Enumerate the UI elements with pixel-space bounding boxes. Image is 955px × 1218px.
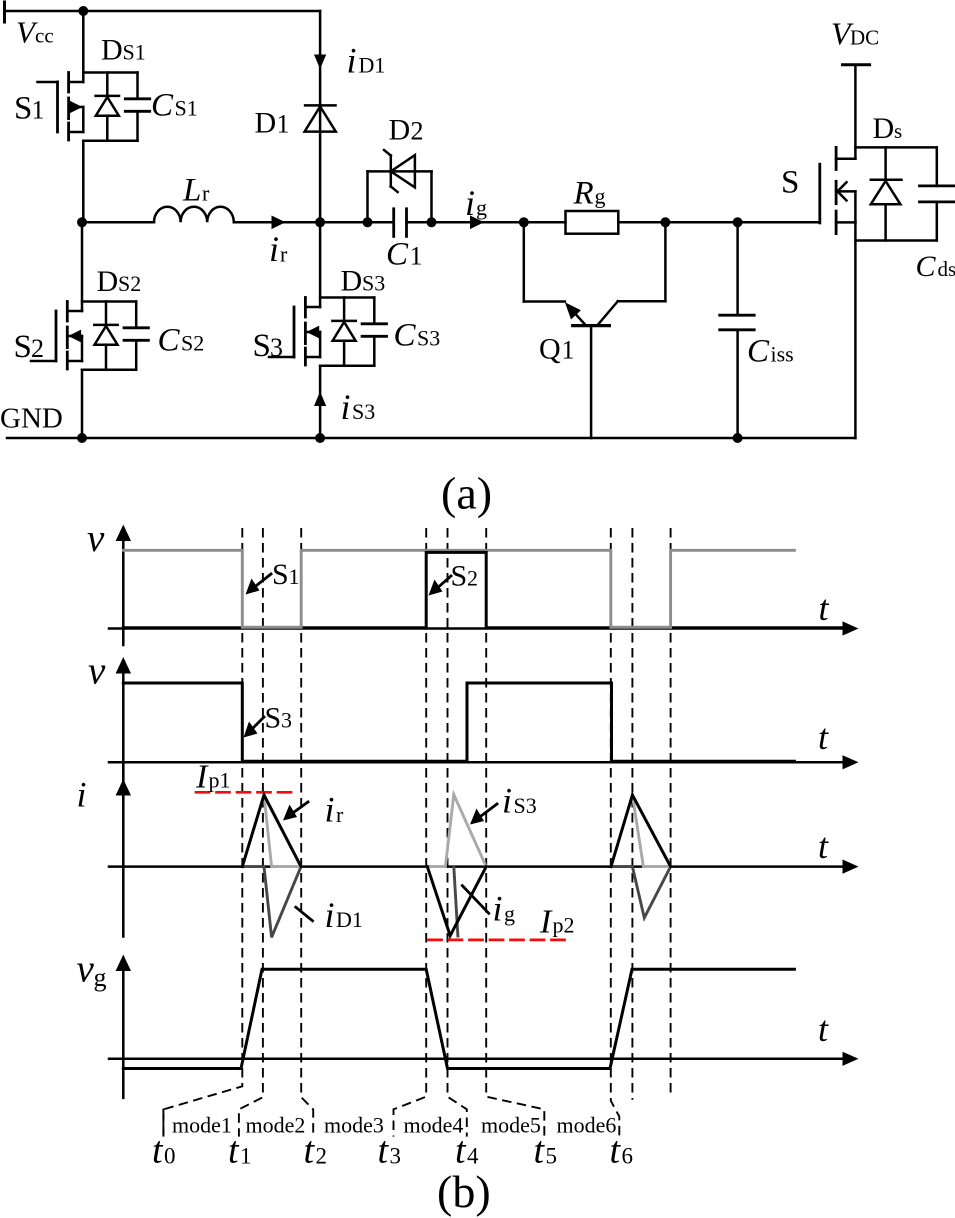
svg-text:D: D: [255, 107, 277, 140]
svg-text:6: 6: [622, 1144, 634, 1169]
diode DS2: [82, 302, 136, 370]
svg-text:t: t: [304, 1130, 316, 1172]
svg-text:5: 5: [546, 1144, 558, 1169]
svg-text:S1: S1: [123, 40, 146, 65]
D2 label: [389, 113, 424, 146]
svg-text:r: r: [336, 802, 344, 827]
svg-text:C: C: [394, 318, 417, 354]
svg-text:2: 2: [31, 334, 44, 363]
svg-text:C: C: [151, 88, 174, 124]
svg-text:3: 3: [270, 333, 283, 362]
Rg label: [573, 176, 606, 212]
CS1 label: [151, 88, 198, 124]
svg-text:I: I: [195, 759, 209, 796]
node mid-left: [77, 217, 87, 227]
node D2 left: [363, 217, 373, 227]
svg-text:S2: S2: [181, 331, 204, 356]
node GND left: [77, 433, 87, 443]
trace vg black: [123, 969, 794, 1068]
svg-text:D: D: [97, 265, 119, 298]
iS3 arrow: [314, 392, 326, 407]
svg-text:v: v: [77, 948, 95, 991]
wire S3 drain: [319, 222, 322, 307]
wire dashed aux2-line: [670, 528, 672, 1098]
wire S source down: [854, 222, 857, 438]
Ciss label: [747, 334, 794, 370]
svg-text:1: 1: [277, 110, 290, 139]
svg-text:t: t: [534, 1130, 546, 1172]
trace iS3 light gray group2: [427, 795, 486, 867]
svg-text:v: v: [88, 650, 106, 693]
capacitor C1: [394, 209, 407, 237]
label t3: [378, 1130, 402, 1172]
trace ir black group1: [242, 795, 301, 867]
svg-text:C: C: [386, 237, 409, 273]
svg-text:1: 1: [562, 336, 575, 365]
transistor S2: [31, 222, 82, 369]
svg-text:DC: DC: [850, 25, 879, 49]
label t6: [610, 1130, 634, 1172]
trace iS3 light gray group1: [264, 795, 301, 867]
capacitor Cds: [920, 147, 955, 240]
svg-text:D: D: [101, 34, 123, 67]
wire VDC to S drain: [854, 65, 857, 159]
wire Rg right: [618, 221, 737, 224]
svg-text:S3: S3: [417, 326, 440, 351]
DS1 label: [101, 34, 146, 67]
wire mid rail to center node: [234, 221, 320, 224]
capacitor CS2: [124, 302, 148, 370]
svg-text:mode1: mode1: [172, 1113, 232, 1138]
svg-text:s: s: [894, 119, 902, 143]
svg-text:(a): (a): [441, 468, 492, 519]
wire mid rail node to D2 loop: [320, 221, 394, 224]
wire S1 source to mid node: [82, 141, 85, 223]
svg-text:g: g: [94, 963, 107, 992]
node Rg right: [660, 217, 670, 227]
capacitor Ciss: [720, 222, 755, 438]
wire to Rg: [524, 221, 566, 224]
wire to S gate: [738, 221, 820, 224]
node top: [78, 6, 88, 16]
svg-text:r: r: [202, 181, 210, 206]
D1 label: [255, 107, 290, 140]
svg-text:t: t: [152, 1130, 164, 1172]
label S1 with arrow: [246, 558, 300, 595]
svg-text:S: S: [14, 91, 32, 127]
transistor S1: [38, 73, 84, 141]
axis y panel1: [87, 517, 131, 645]
wire dashed t1-line: [163, 528, 242, 1137]
node center: [315, 217, 325, 227]
svg-text:i: i: [325, 790, 335, 830]
wire S2 source to GND rail: [81, 370, 84, 438]
svg-text:GND: GND: [0, 403, 63, 435]
svg-text:t: t: [228, 1130, 240, 1172]
node GND center: [315, 433, 325, 443]
label S3 with arrow: [244, 702, 293, 738]
svg-text:I: I: [539, 904, 553, 941]
trace iS3 light gray group3: [632, 795, 670, 867]
svg-text:L: L: [182, 173, 201, 209]
svg-text:t: t: [378, 1130, 390, 1172]
svg-text:R: R: [573, 176, 594, 212]
wire mid rail left: [82, 221, 154, 224]
label iS3 with arrow: [470, 781, 537, 825]
svg-text:D: D: [389, 113, 411, 146]
svg-text:i: i: [325, 895, 335, 935]
iD1 arrow: [314, 55, 326, 70]
inductor Lr: [154, 207, 234, 223]
svg-text:2: 2: [467, 566, 478, 591]
svg-text:1: 1: [289, 564, 300, 589]
diode D1: [305, 105, 336, 131]
label iD1 with pointer: [296, 895, 363, 935]
iD1 label: [347, 40, 386, 80]
Lr label: [182, 173, 210, 209]
wire GND rail: [7, 437, 855, 440]
svg-text:S3: S3: [352, 399, 375, 424]
Vcc terminal: [5, 2, 54, 50]
node Rg left: [519, 217, 529, 227]
CS3 label: [394, 318, 441, 354]
axis y panel3: [77, 762, 132, 936]
svg-text:S2: S2: [118, 271, 141, 296]
svg-text:D1: D1: [336, 907, 363, 932]
label ig with pointer: [462, 886, 515, 929]
trace iD1 dark gray group2: [454, 867, 458, 936]
trace S1 gray: [123, 550, 794, 627]
svg-text:0: 0: [164, 1144, 176, 1169]
trace S3 black: [123, 683, 794, 761]
svg-text:(b): (b): [437, 1166, 491, 1217]
svg-text:D: D: [873, 112, 895, 145]
axis y panel4: [77, 948, 132, 1098]
wire dashed t5-line: [486, 528, 544, 1137]
svg-text:2: 2: [411, 116, 424, 145]
node Ciss bottom: [733, 433, 743, 443]
diode DS3: [320, 298, 374, 366]
wire dashed t2-line: [301, 528, 313, 1137]
svg-text:t: t: [818, 1009, 829, 1049]
svg-text:Q: Q: [539, 333, 561, 366]
label t5: [534, 1130, 558, 1172]
svg-text:3: 3: [390, 1144, 402, 1169]
svg-text:3: 3: [281, 708, 292, 733]
label Ip2: [539, 904, 575, 941]
dashed timing lines: [163, 528, 670, 1137]
axis y panel2: [88, 650, 131, 801]
trace iD1 dark gray group1: [242, 867, 301, 938]
transistor Q1: [524, 222, 666, 438]
ir arrow: [272, 216, 286, 230]
svg-text:2: 2: [316, 1144, 328, 1169]
svg-text:t: t: [819, 588, 830, 628]
axis t panel2: [109, 717, 859, 769]
trace ir black group3: [611, 795, 671, 867]
svg-text:v: v: [87, 517, 105, 560]
trace iD1 dark gray group3: [611, 867, 671, 918]
svg-text:ds: ds: [938, 257, 955, 281]
wire dashed t4-line: [448, 528, 467, 1137]
ig label: [465, 183, 487, 223]
capacitor CS1: [125, 73, 149, 141]
iS3 label: [341, 387, 376, 427]
label t0: [152, 1130, 176, 1172]
svg-text:g: g: [504, 901, 515, 926]
svg-text:g: g: [595, 184, 606, 209]
svg-text:S3: S3: [362, 271, 385, 296]
trace S2 black: [123, 552, 845, 627]
svg-text:p1: p1: [209, 768, 231, 793]
wire S1 drain: [82, 11, 85, 82]
wire dashed aux1-line: [631, 528, 633, 1100]
DS2 label: [97, 265, 142, 298]
S1 label: [14, 91, 45, 127]
S2 label: [14, 329, 45, 365]
capacitor CS3: [362, 298, 386, 366]
svg-text:t: t: [818, 717, 829, 757]
axis t panel1: [109, 588, 859, 636]
label t4: [455, 1130, 479, 1172]
svg-text:i: i: [493, 889, 503, 929]
svg-text:S: S: [253, 328, 271, 364]
label t2: [304, 1130, 328, 1172]
svg-text:S3: S3: [514, 793, 537, 818]
svg-text:mode6: mode6: [557, 1113, 617, 1138]
svg-text:p2: p2: [553, 913, 575, 938]
svg-text:mode3: mode3: [324, 1113, 384, 1138]
svg-text:S: S: [451, 560, 468, 593]
svg-text:i: i: [341, 387, 351, 427]
ig arrow: [470, 216, 484, 230]
trace ig black group2: [427, 867, 486, 936]
svg-text:mode5: mode5: [481, 1113, 541, 1138]
svg-text:t: t: [610, 1130, 622, 1172]
wire dashed t1b-line: [239, 528, 263, 1137]
svg-text:mode2: mode2: [246, 1113, 306, 1138]
svg-text:cc: cc: [35, 24, 54, 48]
wire C1 right to Q node: [407, 221, 524, 224]
svg-text:1: 1: [410, 242, 423, 271]
diode DS1: [83, 73, 137, 141]
svg-text:t: t: [818, 826, 829, 866]
axis t panel3: [109, 826, 859, 874]
svg-text:i: i: [465, 183, 475, 223]
mode separator dashes: [162, 1109, 164, 1136]
svg-text:iss: iss: [771, 342, 794, 367]
svg-text:D1: D1: [359, 52, 386, 77]
VDC supply: [831, 15, 879, 64]
label Ip1: [195, 759, 231, 796]
svg-text:S: S: [265, 702, 282, 735]
label ir with arrow: [283, 790, 344, 830]
trace S1 gray low repaint: [242, 626, 670, 629]
svg-text:g: g: [476, 195, 487, 220]
transistor S (main switch): [820, 147, 856, 233]
transistor S3: [269, 298, 320, 366]
label t1: [228, 1130, 252, 1172]
svg-text:S: S: [272, 558, 289, 591]
svg-text:S: S: [781, 165, 799, 201]
wire top rail: [5, 10, 321, 13]
axis t panel4: [109, 1009, 859, 1066]
node C1 right: [427, 217, 437, 227]
C1 label: [386, 237, 423, 273]
label S2 with arrow: [429, 560, 479, 596]
svg-text:4: 4: [467, 1144, 479, 1169]
DS3 label: [341, 265, 386, 298]
svg-text:S1: S1: [175, 96, 198, 121]
svg-text:i: i: [347, 40, 357, 80]
svg-text:r: r: [280, 242, 288, 267]
svg-text:1: 1: [32, 96, 45, 125]
Ds label: [873, 112, 903, 145]
svg-text:C: C: [916, 250, 937, 283]
CS2 label: [158, 323, 205, 359]
svg-text:i: i: [269, 229, 279, 269]
svg-text:i: i: [502, 781, 512, 821]
resistor Rg: [566, 211, 619, 234]
svg-text:C: C: [747, 334, 770, 370]
Q1 label: [539, 333, 575, 366]
wire dashed t3-line: [394, 528, 427, 1137]
svg-text:S: S: [14, 329, 32, 365]
diode D2 (zener): [368, 150, 432, 222]
svg-text:C: C: [158, 323, 181, 359]
Cds label: [916, 250, 955, 283]
diode Ds: [855, 147, 936, 240]
svg-text:i: i: [77, 775, 87, 815]
ir label: [269, 229, 288, 269]
svg-text:1: 1: [240, 1144, 252, 1169]
wire S3 source to GND rail: [319, 366, 322, 438]
S3 label: [253, 328, 284, 364]
node Ciss top: [733, 217, 743, 227]
wire dashed t6-line: [611, 528, 620, 1137]
red dashed Ip2 level: [429, 939, 568, 942]
svg-text:D: D: [341, 265, 363, 298]
wire D1 branch: [319, 11, 322, 222]
red dashed Ip1 level: [196, 791, 293, 794]
